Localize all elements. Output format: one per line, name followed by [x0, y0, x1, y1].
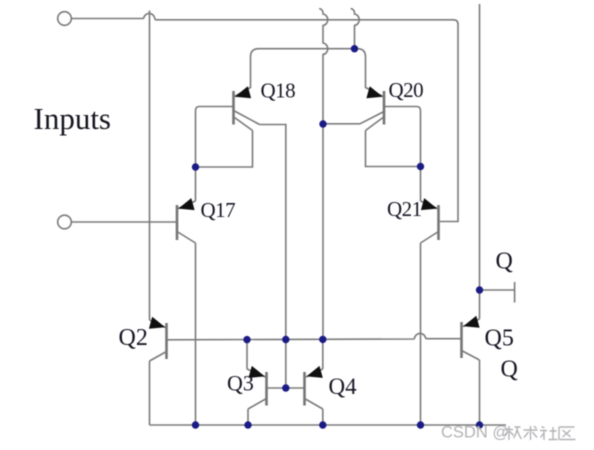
node dot: Q18 base-collector tie: [192, 163, 199, 170]
svg-text:Q18: Q18: [261, 79, 296, 103]
svg-text:Q5: Q5: [485, 326, 514, 352]
transistor Q5: [462, 316, 480, 360]
node dot: Q20 base-collector tie: [417, 163, 424, 170]
wire supply line B x=354.5 from top with hop jog at y=19.8, ends at node dot: [351, 9, 360, 49]
svg-text:Q4: Q4: [329, 374, 358, 399]
svg-text:Q3: Q3: [227, 371, 254, 396]
wire input1 top horizontal with hop over left tall line, to right corner and down to Q21 base: [71, 13, 458, 221]
transistor Q17: [177, 198, 196, 243]
wire Q18 upper collector down the centre to Q3/Q4 base node: [260, 125, 286, 389]
wire Q21 collector down to bottom rail: [420, 243, 422, 425]
wire Q3/Q4 base tie: [267, 387, 305, 389]
svg-text:Q17: Q17: [201, 198, 236, 222]
svg-text:Q21: Q21: [387, 197, 422, 221]
wire Q4 collector to rail: [322, 409, 324, 425]
wire input2 to base of Q17: [71, 221, 176, 223]
wire node A to Q18 lower collector: [196, 131, 253, 168]
node dot: rail at Q4 collector: [319, 421, 326, 428]
output terminal tick: [514, 282, 516, 303]
wire Q3 collector to rail: [247, 409, 249, 425]
wire base bus y=339.4 from Q2 base to Q5 base with hop over Q21 collector line: [167, 333, 461, 339]
transistor Q18: [234, 57, 260, 131]
wire Q17 collector down to bottom rail: [195, 243, 197, 425]
input terminal 1 (top left circle): [58, 12, 72, 26]
svg-text:Q: Q: [501, 357, 518, 383]
wire Q20 base to node B and down to Q21 emitter: [384, 107, 421, 202]
wire supply line A x=323 from top with hop jogs at y=19.8 and y=48.7: [319, 9, 328, 340]
wire Q4 emitter feed: [322, 339, 324, 369]
wire bottom rail: [150, 424, 507, 426]
transistor Q3: [247, 366, 267, 409]
svg-text:Q20: Q20: [389, 78, 424, 102]
svg-text:Inputs: Inputs: [34, 101, 112, 136]
transistor Q21: [421, 198, 439, 243]
svg-text:Q: Q: [496, 249, 513, 275]
node dot: rail at Q5 collector: [476, 421, 483, 428]
wire Q5 emitter feed from top x=479.5: [479, 4, 481, 319]
node dot: base bus at centre line: [282, 336, 289, 343]
transistor Q2: [149, 317, 167, 361]
transistor Q4: [305, 366, 323, 409]
wire left tall line x=149.5 (Q2 emitter feed from top): [149, 11, 151, 321]
node dot: Q20 upper collector on supply line A: [319, 120, 326, 127]
wire Q20 upper collector to supply line A: [323, 123, 360, 125]
input terminal 2 (lower left circle): [58, 215, 72, 229]
svg-text:CSDN @: CSDN @: [441, 424, 509, 442]
node dot: emitter rail to supply line B: [351, 45, 358, 52]
node dot: base bus at Q3 emitter: [243, 336, 250, 343]
wire emitter rail y=48.7 from Q18 emitter to Q20 emitter corner: [251, 49, 366, 57]
wire Q5 collector down to bottom rail: [479, 360, 481, 425]
wire Q3 emitter feed: [246, 339, 248, 369]
transistor Q20: [360, 57, 384, 131]
node dot: rail at Q3 collector: [244, 421, 251, 428]
wire Q18 base to node A and down to Q17 emitter: [196, 107, 234, 202]
wire Q2 collector to bottom rail corner: [149, 361, 151, 425]
node dot: output node on Q5 emitter line: [476, 286, 483, 293]
svg-text:Q2: Q2: [119, 325, 148, 351]
watermark CSDN @极术社区: [441, 424, 576, 442]
node dot: rail at Q21 collector: [417, 421, 424, 428]
node dot: base bus at supply line A / Q4 emitter: [319, 336, 326, 343]
wire node B to Q20 lower collector: [366, 131, 421, 167]
node dot: Q3/Q4 base node: [282, 384, 289, 391]
node dot: rail at Q17 collector: [192, 421, 199, 428]
wire output stub Q: [480, 289, 515, 291]
